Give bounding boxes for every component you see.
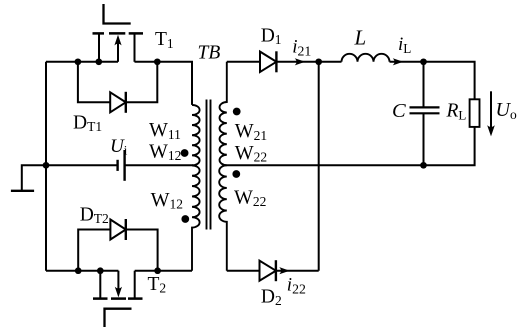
diode D2 (260, 260, 276, 281)
battery U_i (118, 150, 125, 181)
junction: DT2 cathode branch (154, 267, 161, 274)
output voltage arrow Uo (487, 91, 495, 136)
junction: battery node on left rail (43, 162, 50, 169)
svg-text:T2: T2 (148, 274, 167, 296)
svg-text:i21: i21 (292, 37, 311, 59)
svg-text:C: C (392, 100, 406, 122)
transformer TB primary winding W11/W12 (192, 105, 200, 271)
polarity dot: lower secondary W22 (232, 170, 240, 178)
svg-text:iL: iL (398, 34, 411, 56)
svg-text:L: L (354, 26, 367, 50)
wire: inductor to load node (390, 62, 475, 100)
svg-text:i22: i22 (287, 275, 306, 297)
polarity dot: W21 (top of upper secondary) (233, 108, 241, 116)
svg-text:RL: RL (446, 101, 467, 123)
svg-text:W22: W22 (234, 186, 266, 209)
wire: secondary center tap / output return rail (225, 127, 475, 165)
svg-text:Uo: Uo (496, 99, 517, 122)
svg-text:Ui: Ui (110, 136, 128, 158)
svg-text:T1: T1 (155, 29, 174, 51)
wire: T1 drain to transformer primary top (135, 62, 193, 105)
svg-text:TB: TB (198, 43, 221, 64)
polarity dot: lower primary W12 (181, 215, 189, 223)
junction: T2 source lead (97, 267, 104, 274)
polarity dot: W12 (end of upper primary) (181, 149, 189, 157)
wire: D2 cathode to freewheel link (276, 270, 319, 272)
wire: left supply rail (45, 62, 47, 271)
resistor RL (load) (470, 99, 480, 127)
junction: DT1 anode branch on source wire (75, 58, 82, 65)
svg-text:DT2: DT2 (80, 205, 109, 227)
svg-text:W11: W11 (149, 119, 181, 142)
transistor T2 (MOSFET, mirrored) (93, 271, 143, 327)
transistor T1 (MOSFET, channel dashes / gate / source / drain / body arrow) (93, 4, 144, 62)
wire: link between D1 and D2 cathode nodes (318, 62, 320, 271)
wire: left rail to battery negative plate (46, 164, 117, 166)
wire: T2 drain to transformer primary bottom (135, 270, 192, 272)
junction: DT2 anode branch (75, 267, 82, 274)
wire: secondary top to diode D1 anode (227, 61, 260, 63)
junction: DT1 cathode branch on drain wire (154, 58, 161, 65)
transformer TB secondary winding W21/W22 (219, 62, 227, 271)
junction: capacitor top node (420, 58, 427, 65)
current arrow iL (393, 58, 403, 65)
svg-text:W12: W12 (151, 189, 183, 212)
capacitor C (410, 62, 440, 166)
svg-text:D1: D1 (261, 26, 282, 48)
current arrow i21 (295, 58, 305, 65)
svg-text:DT1: DT1 (73, 112, 102, 134)
svg-text:W22: W22 (235, 142, 267, 165)
junction: freewheel node (D1/D2 cathodes) (315, 58, 322, 65)
current arrow i22 (279, 267, 289, 274)
inductor L (342, 54, 390, 62)
junction: T1 source lead (95, 58, 102, 65)
diode D1 (260, 51, 276, 72)
junction: capacitor bottom node (420, 162, 427, 169)
svg-text:W12: W12 (149, 140, 181, 163)
wire: secondary bottom to diode D2 anode (227, 270, 260, 272)
ground (11, 165, 46, 191)
transformer core (207, 100, 211, 230)
wire: T1 source segment to left rail (46, 61, 118, 63)
diode DT1 (anti-parallel diode of T1) (78, 62, 157, 113)
svg-text:D2: D2 (261, 287, 282, 309)
wire: D1 cathode to inductor (276, 61, 341, 63)
svg-text:W21: W21 (235, 120, 267, 143)
wire: battery positive plate to primary center tap (125, 164, 193, 166)
wire: bottom left segment (T2 source to left rail) (46, 270, 118, 272)
diode DT2 (anti-parallel diode of T2) (78, 219, 157, 271)
